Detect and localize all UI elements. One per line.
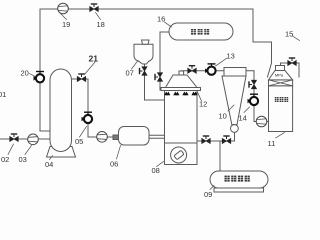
wire left riser <box>40 9 50 131</box>
wire drop to product tank <box>219 141 221 171</box>
valve A column bottoms <box>202 136 211 144</box>
pointer 08 <box>157 162 164 167</box>
tank 04 vertical vessel skirt <box>47 147 76 158</box>
column 12 flange band <box>161 88 201 91</box>
wire pump to vessel11 <box>267 121 269 123</box>
pointer 19 <box>61 14 67 20</box>
vessel 11 top cap <box>276 66 285 71</box>
pump 19 circle pump <box>58 3 69 14</box>
pointer 06 <box>117 146 121 160</box>
svg-text:09: 09 <box>204 190 212 199</box>
column 12 cone top <box>166 75 198 88</box>
svg-text:15: 15 <box>285 30 293 39</box>
valve 15 vessel vent <box>288 58 297 66</box>
text product tank label glyphs <box>225 176 250 182</box>
svg-text:21: 21 <box>89 54 99 64</box>
text vessel 11 label glyphs <box>275 97 288 102</box>
tank 16 water storage tank <box>169 23 233 40</box>
svg-text:03: 03 <box>19 155 27 164</box>
wire hopper feed line <box>145 64 165 100</box>
wire tank04 outlet to pump05 <box>71 79 97 137</box>
column 12 body <box>165 91 198 165</box>
tank 09 base <box>214 188 264 192</box>
pointer 15 <box>293 36 300 41</box>
wire column bottoms line <box>197 140 235 142</box>
valve 02 <box>10 134 19 142</box>
pointer 11 <box>276 133 285 139</box>
svg-text:16: 16 <box>157 15 165 24</box>
valve under hopper 07 <box>140 67 148 76</box>
spray nozzles row in column <box>164 92 198 96</box>
pointer 20 <box>30 74 36 77</box>
tank 04 vertical vessel <box>50 69 72 152</box>
valve 18 <box>90 4 99 12</box>
svg-text:10: 10 <box>219 112 227 121</box>
blower 08 circle <box>171 147 187 163</box>
valve on column overhead <box>188 66 197 74</box>
pointer 18 <box>96 13 101 20</box>
blower 08 rotor <box>174 150 184 159</box>
vessel 11 cross diagonals <box>269 80 293 86</box>
pump 05 rotary pump <box>82 112 93 123</box>
pump 13 rotary pump <box>205 64 216 75</box>
valve on water downcomer <box>155 73 163 82</box>
svg-text:14: 14 <box>239 114 247 123</box>
wire top right feed to vessel11 <box>253 9 272 77</box>
wire water tank downcomer <box>160 32 169 90</box>
text in tanks (drawn pseudo-glyphs, CJK font not available) <box>191 29 288 182</box>
valve B before cyclone drop <box>222 136 231 144</box>
wire duct tank06 to column upper <box>149 134 165 136</box>
pointer 16 <box>165 22 172 27</box>
pointer 09 <box>210 186 214 190</box>
pointer lines <box>8 13 300 190</box>
tank 06 inlet nozzle <box>113 135 119 140</box>
wire column overhead pipe <box>181 71 254 75</box>
wire vessel vent line <box>281 63 300 77</box>
svg-text:20: 20 <box>21 69 29 78</box>
text water tank label glyphs <box>191 29 209 35</box>
pointer 13 <box>216 58 228 66</box>
svg-text:MPa: MPa <box>275 73 284 78</box>
pointer 02 <box>8 144 14 155</box>
svg-text:08: 08 <box>152 166 160 175</box>
pointer 10 <box>228 105 234 111</box>
svg-text:13: 13 <box>227 52 235 61</box>
wire pump to tank06 <box>107 136 113 138</box>
pointer 07 <box>132 61 139 70</box>
pump 20 rotary pump <box>34 72 45 83</box>
svg-text:19: 19 <box>62 20 70 29</box>
valve 21 <box>77 74 86 82</box>
svg-text:12: 12 <box>199 100 207 109</box>
hopper 07 body <box>134 44 153 64</box>
valve on cyclone underflow <box>249 80 257 89</box>
vessel 11 body <box>269 86 293 132</box>
pump 14 rotary pump <box>248 94 259 105</box>
wire cyclone ball drop <box>234 132 236 141</box>
vessel 11 shoulder <box>269 71 293 80</box>
svg-text:06: 06 <box>110 160 118 169</box>
pointer 03 <box>25 146 32 155</box>
pump at vessel 11 inlet <box>256 116 267 127</box>
wire duct tank06 to column lower <box>149 137 165 139</box>
vessel 11 cross band <box>269 80 293 86</box>
pointer 04 <box>50 156 53 160</box>
cyclone 10 cone <box>222 76 246 125</box>
tank 09 product tank <box>210 171 268 188</box>
pointer 14 <box>244 107 250 113</box>
hopper 07 top port <box>142 40 150 44</box>
pointer 12 <box>198 92 202 101</box>
pointer 21 <box>85 62 96 75</box>
wire raw inlet pipe <box>0 138 50 140</box>
pump at tank 06 inlet <box>97 132 108 143</box>
wire top header pipe <box>40 8 253 10</box>
cyclone 10 discharge ball <box>231 125 239 133</box>
svg-text:05: 05 <box>75 137 83 146</box>
column 12 partition <box>165 142 198 144</box>
svg-text:11: 11 <box>268 139 276 148</box>
column 12 neck <box>179 71 184 75</box>
tank 06 oval tank <box>119 127 150 146</box>
wire cyclone underflow line <box>254 71 257 122</box>
svg-text:18: 18 <box>97 20 105 29</box>
pump 03 circle pump <box>28 134 39 145</box>
cyclone 10 inlet box <box>224 68 246 77</box>
svg-text:04: 04 <box>45 160 53 169</box>
svg-text:02: 02 <box>1 155 9 164</box>
pointer 05 <box>80 127 87 138</box>
svg-text:01: 01 <box>0 90 6 99</box>
svg-text:07: 07 <box>126 69 134 78</box>
